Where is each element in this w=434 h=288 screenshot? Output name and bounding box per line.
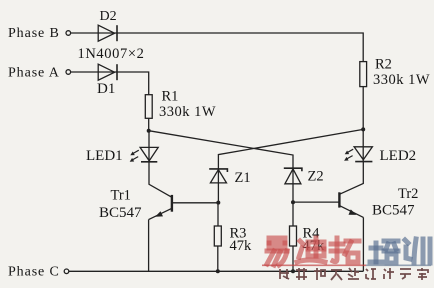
wire R3 to Phase C line (217, 246, 219, 271)
wire Tr2 collector to LED2 (339, 162, 363, 195)
wire node to R3 (217, 203, 219, 226)
wire R1 to node (148, 118, 150, 130)
terminal Phase A (66, 70, 71, 75)
wire Phase C line (69, 270, 364, 272)
wire cross left node to Z2 (149, 131, 293, 203)
zener Z1 (209, 169, 227, 183)
LED LED2 (344, 147, 372, 162)
svg-text:47k: 47k (230, 238, 253, 254)
LED LED1 (130, 147, 159, 161)
watermark underline (262, 264, 366, 266)
svg-text:Phase B: Phase B (8, 26, 60, 41)
svg-text:R2: R2 (375, 56, 392, 72)
node R3/Phase C (216, 269, 220, 273)
wire node to R4 (292, 202, 294, 226)
resistor R2 (360, 62, 367, 87)
diode D1 (98, 64, 117, 80)
svg-text:Z1: Z1 (235, 170, 251, 186)
resistor R3 (214, 226, 221, 246)
svg-text:LED1: LED1 (86, 148, 123, 164)
wire Tr1 emitter down (148, 220, 150, 272)
svg-text:Z2: Z2 (308, 169, 324, 185)
wire Phase A line to R1 corner (71, 72, 149, 95)
node R2/LED2 (361, 127, 365, 131)
svg-text:1N4007×2: 1N4007×2 (78, 46, 145, 62)
transistor Tr2 (339, 192, 363, 217)
transistor Tr1 (149, 195, 172, 220)
wire Tr1 base to Z1 node (172, 202, 218, 204)
svg-text:Phase A: Phase A (8, 66, 60, 81)
svg-text:330k 1W: 330k 1W (159, 104, 216, 120)
svg-text:R1: R1 (162, 88, 179, 104)
wire R2 to node (362, 87, 364, 130)
wire Z2 node to Tr2 base (293, 201, 339, 203)
resistor R4 (290, 226, 297, 246)
node Z1/R3/base (216, 201, 220, 205)
wire LED2 top to node (362, 129, 364, 161)
resistor R1 (145, 95, 152, 119)
node Z2/R4/base (291, 200, 295, 204)
svg-text:D2: D2 (100, 9, 117, 24)
terminal Phase B (66, 31, 71, 36)
wire Tr2 emitter down (362, 217, 364, 271)
node R4/Phase C (291, 269, 295, 273)
zener Z2 (284, 168, 302, 184)
wire cross right node to Z1 (218, 129, 363, 202)
svg-text:Tr1: Tr1 (111, 188, 131, 204)
wire R4 to Phase C line (292, 246, 294, 271)
svg-text:BC547: BC547 (372, 202, 415, 218)
wire node through LED1 to Tr1 collector (149, 131, 172, 198)
watermark underline right (366, 264, 431, 266)
svg-text:D1: D1 (97, 81, 115, 97)
svg-text:LED2: LED2 (380, 148, 417, 164)
wire Phase B line to R2 corner (71, 33, 364, 62)
watermark big text (267, 238, 430, 265)
diode D2 (98, 25, 117, 41)
svg-text:330k 1W: 330k 1W (373, 72, 430, 88)
svg-text:Phase C: Phase C (8, 264, 60, 279)
svg-text:Tr2: Tr2 (398, 186, 418, 202)
node R1/LED1 (147, 129, 151, 133)
terminal Phase C (64, 269, 69, 274)
watermark small text (280, 268, 428, 280)
svg-text:BC547: BC547 (99, 205, 142, 221)
